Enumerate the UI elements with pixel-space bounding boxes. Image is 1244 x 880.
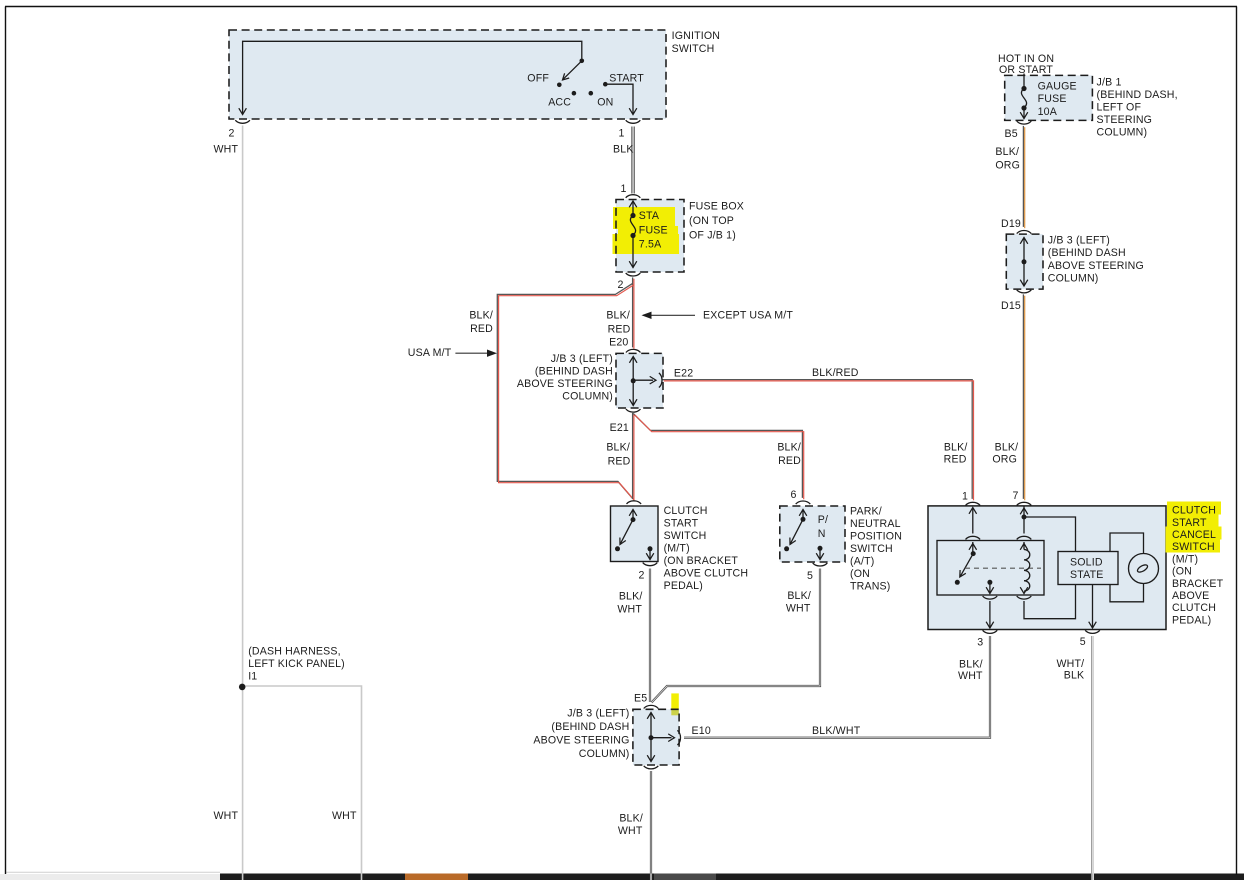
svg-text:BLK: BLK	[1064, 669, 1085, 681]
svg-text:PEDAL): PEDAL)	[664, 580, 703, 592]
svg-text:STA: STA	[639, 210, 660, 222]
svg-text:FUSE: FUSE	[639, 224, 668, 236]
svg-text:BLK/: BLK/	[619, 813, 643, 825]
svg-text:E21: E21	[610, 422, 629, 434]
svg-text:SWITCH: SWITCH	[1172, 541, 1215, 553]
svg-text:USA M/T: USA M/T	[408, 347, 452, 359]
svg-text:1: 1	[621, 183, 627, 195]
svg-text:BLK/: BLK/	[606, 309, 630, 321]
svg-text:START: START	[609, 72, 644, 84]
svg-text:P/: P/	[818, 514, 828, 526]
svg-text:(DASH HARNESS,: (DASH HARNESS,	[248, 646, 341, 658]
svg-text:PARK/: PARK/	[850, 506, 882, 518]
svg-text:J/B 3 (LEFT): J/B 3 (LEFT)	[551, 353, 613, 365]
svg-text:START: START	[1172, 517, 1207, 529]
svg-text:J/B 3 (LEFT): J/B 3 (LEFT)	[567, 708, 629, 720]
svg-text:OFF: OFF	[527, 72, 549, 84]
svg-text:CLUTCH: CLUTCH	[1172, 505, 1216, 517]
svg-text:WHT: WHT	[214, 144, 239, 156]
svg-text:D15: D15	[1001, 300, 1021, 312]
svg-text:BLK/RED: BLK/RED	[812, 367, 859, 379]
svg-text:SOLID: SOLID	[1070, 557, 1103, 569]
svg-text:SWITCH: SWITCH	[664, 530, 707, 542]
svg-text:(BEHIND DASH: (BEHIND DASH	[535, 366, 613, 378]
svg-text:(ON BRACKET: (ON BRACKET	[664, 555, 739, 567]
svg-text:BLK/: BLK/	[777, 441, 801, 453]
svg-text:10A: 10A	[1038, 106, 1058, 118]
svg-text:2: 2	[229, 128, 235, 140]
svg-text:2: 2	[639, 569, 645, 581]
svg-text:(BEHIND DASH: (BEHIND DASH	[551, 721, 629, 733]
svg-text:J/B 1: J/B 1	[1097, 76, 1122, 88]
svg-text:WHT: WHT	[958, 670, 983, 682]
svg-text:EXCEPT USA M/T: EXCEPT USA M/T	[703, 310, 793, 322]
svg-text:WHT: WHT	[332, 810, 357, 822]
svg-text:WHT: WHT	[214, 810, 239, 822]
svg-text:BLK/: BLK/	[619, 590, 643, 602]
svg-text:(ON: (ON	[850, 568, 870, 580]
svg-text:LEFT KICK PANEL): LEFT KICK PANEL)	[248, 658, 345, 670]
svg-text:BLK/: BLK/	[469, 309, 493, 321]
svg-text:6: 6	[791, 489, 797, 501]
svg-text:(BEHIND DASH: (BEHIND DASH	[1048, 247, 1126, 259]
svg-text:STEERING: STEERING	[1097, 114, 1153, 126]
svg-text:N: N	[818, 528, 826, 540]
svg-text:BLK/: BLK/	[995, 146, 1019, 158]
svg-text:LEFT OF: LEFT OF	[1097, 101, 1142, 113]
svg-text:B5: B5	[1005, 128, 1018, 140]
svg-text:RED: RED	[608, 323, 631, 335]
svg-text:BLK/: BLK/	[995, 441, 1019, 453]
svg-text:ORG: ORG	[992, 453, 1017, 465]
svg-text:(ON: (ON	[1172, 566, 1192, 578]
svg-text:BLK/: BLK/	[606, 441, 630, 453]
svg-text:5: 5	[807, 570, 813, 582]
svg-text:FUSE BOX: FUSE BOX	[689, 201, 744, 213]
svg-text:TRANS): TRANS)	[850, 581, 891, 593]
svg-text:(ON TOP: (ON TOP	[689, 215, 734, 227]
svg-text:(BEHIND DASH,: (BEHIND DASH,	[1097, 89, 1178, 101]
svg-text:2: 2	[618, 279, 624, 291]
svg-text:BRACKET: BRACKET	[1172, 578, 1224, 590]
svg-text:CLUTCH: CLUTCH	[664, 505, 708, 517]
svg-text:COLUMN): COLUMN)	[1048, 272, 1099, 284]
svg-text:WHT: WHT	[786, 603, 811, 615]
svg-text:RED: RED	[470, 323, 493, 335]
svg-text:ACC: ACC	[548, 96, 571, 108]
svg-text:CLUTCH: CLUTCH	[1172, 602, 1216, 614]
svg-text:SWITCH: SWITCH	[672, 43, 715, 55]
svg-text:ABOVE: ABOVE	[1172, 590, 1209, 602]
svg-text:ABOVE STEERING: ABOVE STEERING	[517, 378, 613, 390]
svg-text:E10: E10	[692, 725, 711, 737]
svg-text:RED: RED	[944, 453, 967, 465]
svg-text:COLUMN): COLUMN)	[579, 748, 630, 760]
svg-text:OF J/B 1): OF J/B 1)	[689, 229, 736, 241]
svg-text:BLK: BLK	[613, 144, 634, 156]
svg-text:PEDAL): PEDAL)	[1172, 614, 1211, 626]
svg-text:BLK/WHT: BLK/WHT	[812, 725, 861, 737]
svg-text:3: 3	[977, 636, 983, 648]
svg-text:E22: E22	[674, 368, 693, 380]
svg-text:COLUMN): COLUMN)	[1097, 126, 1148, 138]
svg-text:1: 1	[962, 490, 968, 502]
svg-text:NEUTRAL: NEUTRAL	[850, 518, 901, 530]
svg-text:BLK/: BLK/	[944, 441, 968, 453]
svg-text:WHT: WHT	[617, 603, 642, 615]
svg-text:CANCEL: CANCEL	[1172, 529, 1216, 541]
svg-text:OR START: OR START	[999, 64, 1053, 76]
svg-text:(A/T): (A/T)	[850, 556, 874, 568]
svg-text:BLK/: BLK/	[787, 590, 811, 602]
svg-text:1: 1	[619, 128, 625, 140]
svg-text:IGNITION: IGNITION	[672, 30, 721, 42]
svg-text:ORG: ORG	[995, 160, 1020, 172]
svg-text:7: 7	[1013, 490, 1019, 502]
svg-text:RED: RED	[778, 455, 801, 467]
svg-text:BLK/: BLK/	[959, 658, 983, 670]
svg-text:D19: D19	[1001, 218, 1021, 230]
svg-text:(M/T): (M/T)	[1172, 553, 1198, 565]
svg-text:WHT: WHT	[618, 825, 643, 837]
svg-text:I1: I1	[248, 670, 257, 682]
svg-text:ON: ON	[597, 96, 613, 108]
svg-text:5: 5	[1080, 636, 1086, 648]
svg-text:E20: E20	[609, 336, 628, 348]
svg-text:FUSE: FUSE	[1038, 93, 1067, 105]
svg-text:ABOVE CLUTCH: ABOVE CLUTCH	[664, 567, 749, 579]
svg-text:SWITCH: SWITCH	[850, 543, 893, 555]
svg-text:RED: RED	[608, 455, 631, 467]
svg-text:WHT/: WHT/	[1057, 658, 1085, 670]
svg-text:GAUGE: GAUGE	[1038, 80, 1077, 92]
svg-text:E5: E5	[634, 693, 647, 705]
svg-text:7.5A: 7.5A	[639, 239, 662, 251]
svg-text:STATE: STATE	[1070, 569, 1103, 581]
svg-text:START: START	[664, 517, 699, 529]
svg-text:ABOVE STEERING: ABOVE STEERING	[1048, 260, 1144, 272]
svg-text:(M/T): (M/T)	[664, 542, 690, 554]
svg-text:J/B 3 (LEFT): J/B 3 (LEFT)	[1048, 235, 1110, 247]
svg-text:POSITION: POSITION	[850, 531, 902, 543]
svg-text:ABOVE STEERING: ABOVE STEERING	[533, 735, 629, 747]
svg-text:COLUMN): COLUMN)	[562, 391, 613, 403]
